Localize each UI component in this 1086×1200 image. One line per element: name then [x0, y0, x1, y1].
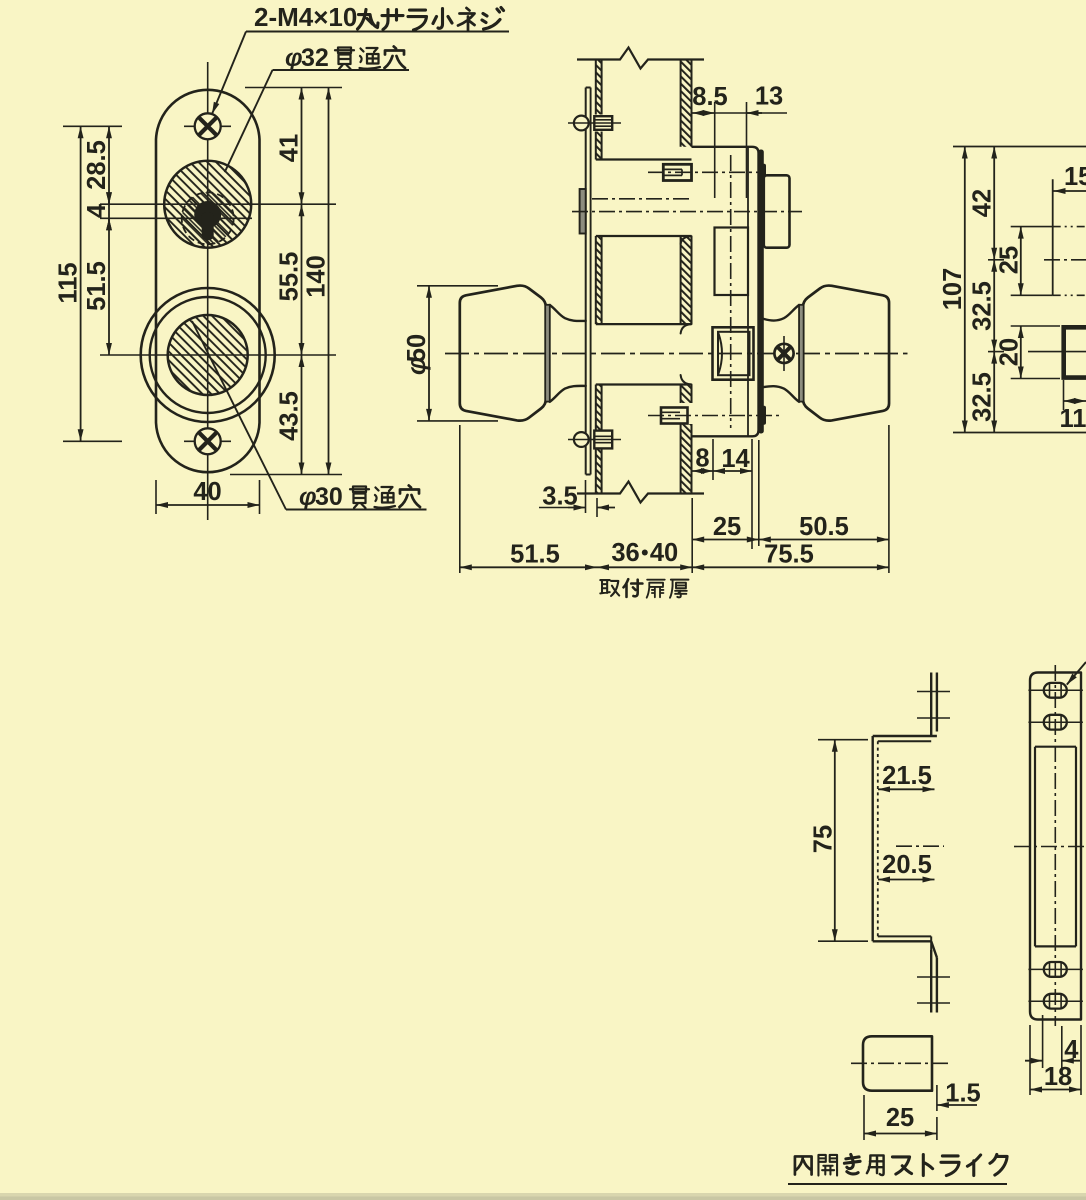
slot 2 center mark: [1028, 721, 1083, 723]
svg-text:32.5: 32.5: [969, 281, 997, 331]
strike bottom flange left face: [930, 950, 932, 1013]
extension line plate bottom: [230, 474, 342, 476]
ext line knob top: [417, 285, 498, 287]
cylinder collar (inside face): [580, 189, 586, 234]
knob rose outer circle: [141, 288, 275, 422]
dim 55.5 line: [301, 204, 303, 355]
ext line 4 right: [1061, 1026, 1063, 1068]
vertical center line latch case: [730, 155, 732, 428]
ext line plate face: [585, 480, 587, 513]
faceplate upper tab: [758, 164, 766, 186]
door left face hatch (mortise to knob hole): [596, 236, 602, 324]
opening right edge: [1075, 747, 1077, 947]
lower left mounting screw: [574, 432, 589, 447]
knob hub hole top: [596, 323, 692, 325]
strike box section (thick C): [1064, 327, 1086, 377]
center line phi30 hole: [100, 354, 336, 356]
slot 4 center mark: [1028, 1000, 1083, 1002]
svg-text:43.5: 43.5: [276, 391, 304, 441]
hub follower arc: [719, 334, 723, 374]
ext line 25 left: [863, 1095, 865, 1140]
center line cylinder/latch axis: [572, 211, 802, 213]
latch bolt: [764, 175, 790, 247]
strike box left outer: [872, 736, 874, 941]
inside escutcheon plate left face: [585, 88, 587, 475]
leader arrow to slot: [1067, 662, 1086, 685]
dim 42: [993, 147, 995, 260]
upper left mounting screw: [574, 116, 589, 131]
outside knob neck bottom: [764, 386, 799, 402]
hatch band cap below knob hole: [681, 375, 692, 385]
inside knob neck top: [550, 305, 586, 321]
ext line inside knob face: [459, 425, 461, 573]
tick at 42/32.5 boundary: [988, 259, 1004, 261]
svg-text:75: 75: [810, 825, 838, 853]
svg-text:1.5: 1.5: [945, 1080, 980, 1108]
svg-text:40: 40: [193, 478, 221, 506]
hatch band cap above knob hole: [681, 324, 692, 333]
ext line 75 bottom: [818, 940, 868, 942]
bottom mounting screw head: [195, 428, 221, 454]
ext line door right face: [691, 498, 693, 573]
dim 43.5 line: [301, 355, 303, 475]
latch bolt piece: [863, 1036, 932, 1090]
strike box top inner: [878, 740, 931, 742]
ext line 75 top: [818, 739, 868, 741]
leader to top screw: [212, 32, 246, 115]
svg-text:50.5: 50.5: [799, 513, 849, 541]
knob rose inner ring: [150, 297, 266, 413]
hub follower outer box: [713, 327, 754, 379]
door right face hatch (below knob hole): [681, 385, 692, 404]
svg-text:32: 32: [301, 44, 329, 72]
svg-text:41: 41: [276, 134, 304, 162]
mortise pocket top: [596, 158, 692, 160]
knob hub hole bottom: [596, 383, 692, 385]
dim 36-40 (door thickness): [597, 566, 692, 568]
svg-text:140: 140: [303, 255, 331, 298]
inside knob neck collar (gray): [545, 305, 550, 402]
svg-text:20.5: 20.5: [882, 851, 932, 879]
extension line plate right: [259, 480, 261, 514]
dim 21.5: [878, 788, 935, 790]
strike Z-bend outer: [931, 941, 937, 957]
ext line case bottom: [953, 432, 1086, 434]
screw vertical crosshair: [783, 336, 785, 371]
spindle retainer at right face: [663, 164, 691, 180]
ext line faceplate front: [758, 440, 760, 546]
screw slot 1: [1044, 683, 1067, 698]
svg-text:51.5: 51.5: [83, 261, 111, 311]
latch faceplate edge bar: [758, 150, 764, 434]
screw center mark 3: [917, 976, 950, 978]
leader phi30 to hole: [192, 321, 286, 510]
ext line 18 left: [1029, 1025, 1031, 1095]
ext line 4 left: [1042, 1015, 1044, 1068]
svg-text:φ: φ: [285, 44, 303, 72]
label toritsuke-tobira-atsu: [600, 580, 619, 596]
extension line plate top: [245, 87, 342, 89]
svg-text:8.5: 8.5: [692, 83, 727, 111]
ext line backset box left: [714, 102, 716, 198]
hatch band cap below mortise pocket: [681, 236, 692, 244]
dim 51.5: [460, 566, 597, 568]
lower case screw at right face: [661, 408, 688, 424]
dim 4 line: [108, 204, 110, 218]
dim 3.5 left arrow: [568, 507, 586, 509]
svg-text:14: 14: [721, 445, 750, 473]
dim 41 line: [301, 88, 303, 205]
dim 18: [1030, 1089, 1081, 1091]
tick at 32.5/32.5 boundary: [988, 351, 1004, 353]
dim 115 line: [80, 126, 82, 441]
strike top flange left face: [930, 673, 932, 737]
ext line 18 right: [1080, 1025, 1082, 1095]
svg-text:11: 11: [1060, 405, 1086, 433]
ext line backset box right: [746, 102, 748, 198]
plate bottom end: [586, 474, 591, 476]
dim 25: [692, 539, 759, 541]
svg-text:36: 36: [611, 539, 639, 567]
dim 32.5 lower: [993, 352, 995, 433]
svg-text:15: 15: [1064, 163, 1086, 191]
phi30 through hole (hatched): [168, 315, 248, 395]
center line upper screw post: [648, 171, 766, 173]
strike bottom flange right face: [936, 958, 938, 1013]
strike box center line: [896, 845, 944, 847]
center line latch axis (section): [1044, 259, 1086, 261]
strike plate vertical center line: [1054, 665, 1056, 1026]
svg-text:42: 42: [969, 189, 997, 217]
cylinder circle (dashed): [182, 192, 234, 244]
screw slot 3: [1044, 962, 1067, 977]
dim 40 line: [156, 504, 260, 506]
strike top flange right face: [936, 673, 938, 732]
opening bottom edge: [1035, 945, 1076, 947]
door left face hatch (screw to mortise): [596, 132, 602, 160]
ext line door face (3.5): [596, 498, 598, 517]
dim 51.5 line: [108, 218, 110, 355]
underline phi30: [286, 509, 427, 511]
dim 4 left arrow: [1025, 1060, 1043, 1062]
svg-text:φ: φ: [299, 483, 317, 511]
outside knob screw: [774, 344, 793, 363]
dim 25 (bolt): [864, 1133, 937, 1135]
extension line plate left: [155, 480, 157, 514]
ext line 20 bottom: [1011, 378, 1060, 380]
svg-text:28.5: 28.5: [83, 140, 111, 190]
label uchibiraki-you sutoraiku: [795, 1156, 812, 1174]
svg-text:4: 4: [83, 203, 111, 218]
door break line bottom: [577, 482, 704, 503]
svg-text:51.5: 51.5: [510, 541, 560, 569]
dim 1.5 arrow: [937, 1104, 977, 1106]
svg-text:40: 40: [650, 539, 678, 567]
opening left edge: [1034, 747, 1036, 947]
dim 11: [1064, 400, 1086, 402]
escutcheon plate outline (40x140 oval): [156, 90, 260, 472]
vertical center line of escutcheon: [207, 62, 209, 520]
center ext line through box: [1028, 351, 1086, 353]
ext line 25 top: [1011, 226, 1053, 228]
dim 13 arrow: [747, 112, 763, 114]
hub follower inner box: [718, 332, 750, 375]
slot 1 center mark: [1028, 689, 1083, 691]
dim 107: [964, 147, 966, 433]
svg-text:25: 25: [886, 1104, 914, 1132]
phi32 through hole (hatched): [164, 161, 251, 248]
ext line 20 top: [1011, 325, 1060, 327]
svg-text:115: 115: [55, 262, 83, 303]
center ext dashes: [1053, 226, 1086, 228]
dim 25 (latch): [1020, 227, 1022, 296]
screw slot 4: [1044, 994, 1067, 1009]
bottom photo edge: [0, 1193, 1086, 1200]
dim 3.5 right arrow: [597, 507, 615, 509]
label maru sara ko-neji: [358, 10, 379, 30]
faceplate lower tab: [758, 406, 766, 425]
extension line bottom screw center: [63, 440, 122, 442]
svg-text:21.5: 21.5: [882, 762, 932, 790]
ext line 1.5: [936, 1085, 938, 1111]
dim 8.5: [692, 112, 715, 114]
slot 3 center mark: [1028, 968, 1083, 970]
ext line outside knob face: [888, 425, 890, 573]
ext line case top: [953, 146, 1086, 148]
dim 140 line: [328, 88, 330, 475]
screw center mark 2: [917, 717, 950, 719]
dim 50.5: [759, 539, 889, 541]
svg-text:32.5: 32.5: [969, 372, 997, 422]
center line lower screw: [568, 439, 621, 441]
(spacer): [930, 736, 932, 941]
dim 8: [692, 470, 713, 472]
screw center mark 1: [917, 691, 950, 693]
outside knob neck collar (gray): [799, 305, 804, 402]
dim 4 right arrow: [1062, 1060, 1080, 1062]
inside knob neck bottom: [550, 386, 586, 402]
strike box left inner (dashed): [877, 741, 879, 936]
dim 20.5: [878, 879, 935, 881]
svg-text:50: 50: [403, 334, 431, 362]
ext line 8: [712, 439, 714, 480]
underline phi32: [273, 69, 410, 71]
ext line 14: [751, 439, 753, 549]
dim 14: [713, 470, 752, 472]
extension line top screw center: [63, 125, 122, 127]
ext line 11: [1063, 380, 1065, 410]
dim 15 arrow: [1054, 190, 1086, 192]
screw center mark 4: [917, 1002, 950, 1004]
door break line top: [577, 48, 704, 69]
door left face hatch (knob hole to screw): [596, 385, 602, 431]
dim 32.5 upper: [993, 260, 995, 352]
svg-text:30: 30: [315, 483, 343, 511]
strike box top outer: [873, 735, 937, 737]
top mounting screw head: [195, 113, 221, 139]
svg-text:75.5: 75.5: [764, 541, 814, 569]
ext line 25 bottom: [1011, 294, 1053, 296]
strike box bottom inner: [878, 935, 931, 937]
dim 28.5 line: [108, 126, 110, 204]
outside knob body: [803, 286, 889, 421]
svg-text:2-M4×10: 2-M4×10: [254, 2, 357, 32]
latch bolt center line: [851, 1062, 948, 1064]
door left face hatch (below bottom screw): [596, 449, 602, 494]
center line lower screw post: [648, 415, 780, 417]
crosshair bottom screw: [184, 440, 231, 442]
opening top edge: [1035, 746, 1076, 748]
svg-text:107: 107: [939, 268, 967, 311]
ext line knob bottom: [417, 420, 498, 422]
ext line 25 right: [936, 1117, 938, 1140]
case upper inner box: [715, 228, 749, 296]
label kantsuu-ana (phi30): [350, 487, 369, 509]
latch case outline: [692, 147, 759, 437]
svg-text:8: 8: [695, 445, 709, 473]
svg-text:4: 4: [1064, 1036, 1079, 1064]
mortise pocket bottom: [596, 235, 692, 237]
strike plate horizontal center line: [1014, 846, 1086, 848]
dim 75: [834, 740, 836, 942]
svg-text:20: 20: [996, 338, 1024, 366]
strike plate outline: [1030, 673, 1081, 1020]
inside knob body: [460, 286, 546, 421]
door right face hatch (middle): [681, 236, 692, 324]
inside escutcheon plate right face: [590, 88, 592, 475]
center line cylinder (4mm offset): [100, 217, 252, 219]
door right face hatch (bottom): [681, 424, 692, 494]
svg-text:18: 18: [1044, 1063, 1072, 1091]
screw slot 2: [1044, 715, 1067, 730]
svg-text:55.5: 55.5: [276, 252, 304, 302]
svg-text:3.5: 3.5: [542, 483, 577, 511]
leader phi32 to hole: [225, 70, 273, 172]
keyway dark core: [194, 201, 221, 228]
svg-text:25: 25: [996, 246, 1024, 274]
latch case inner wall: [747, 147, 749, 437]
strike box bottom outer: [873, 940, 932, 942]
underline label screws: [246, 31, 509, 33]
center line upper screw: [568, 122, 621, 124]
door left face hatch (above top screw): [596, 60, 602, 115]
label kantsuu-ana (phi32): [335, 48, 354, 70]
crosshair top screw: [184, 125, 231, 127]
dim phi50 line: [428, 286, 430, 421]
door right face hatch (top): [681, 60, 692, 147]
plate top end: [586, 87, 591, 89]
underline strike label: [788, 1183, 1007, 1185]
section edge line: [1052, 179, 1054, 295]
knob axis center line: [445, 353, 908, 355]
center line mortise pocket: [592, 198, 693, 200]
strike Z-bend inner: [930, 936, 932, 952]
dim 75.5: [692, 566, 889, 568]
dim 20: [1020, 326, 1022, 379]
center line phi32 hole: [100, 203, 336, 205]
svg-text:25: 25: [713, 513, 741, 541]
svg-text:13: 13: [755, 83, 783, 111]
outside knob neck top: [764, 305, 799, 321]
